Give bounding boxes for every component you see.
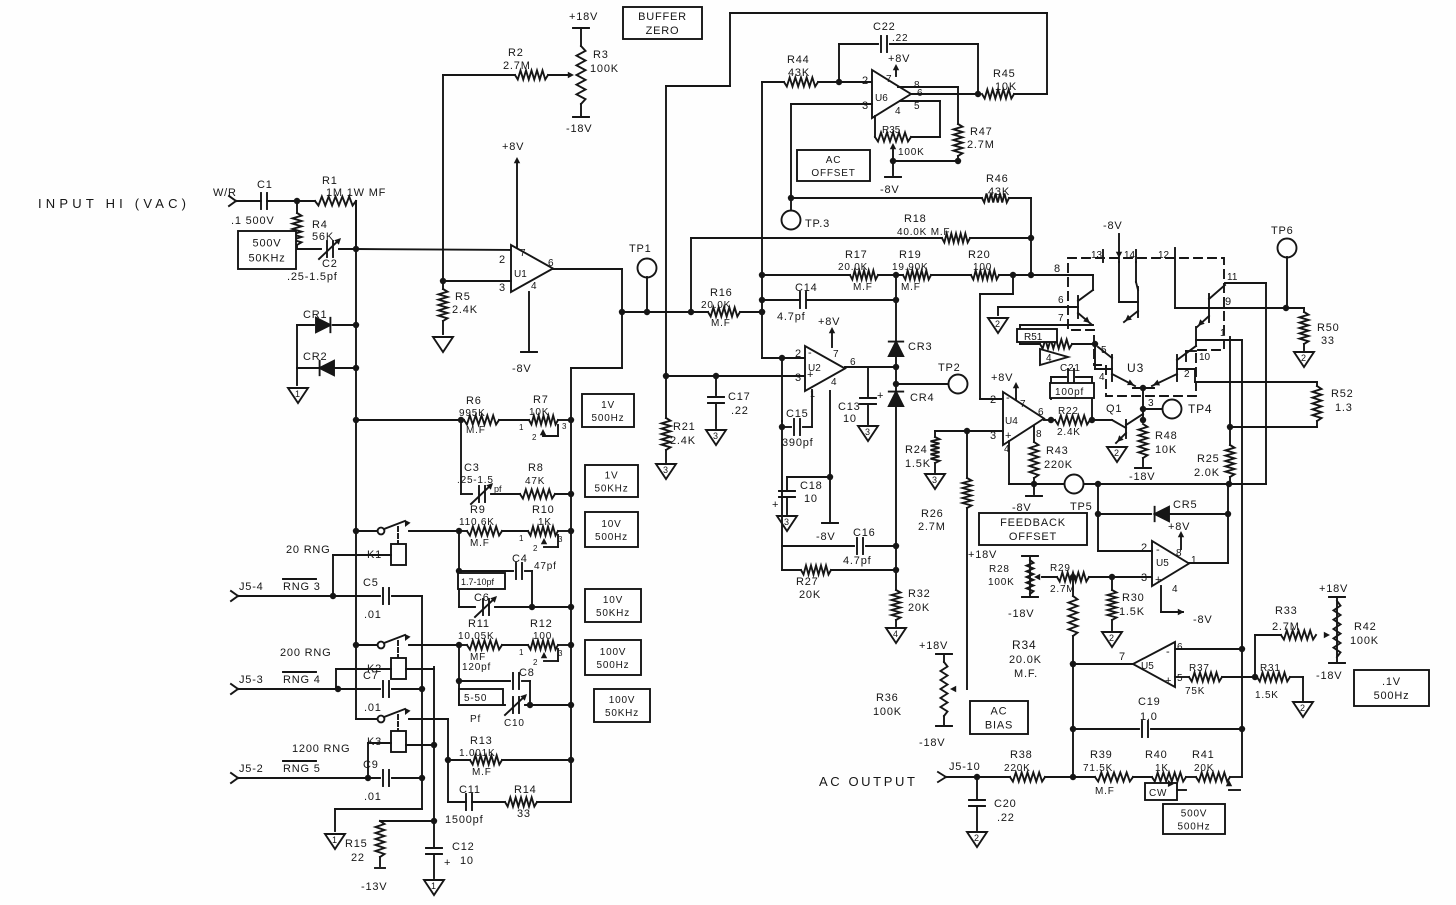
svg-text:1.0: 1.0 [1140,711,1158,723]
svg-text:995K: 995K [459,408,486,419]
svg-text:Pf: Pf [470,714,481,725]
svg-text:U1: U1 [514,269,527,280]
svg-text:R40: R40 [1145,749,1168,761]
svg-text:2.4K: 2.4K [452,304,478,316]
svg-text:U3: U3 [1127,361,1144,375]
svg-text:1: 1 [295,389,300,399]
svg-text:2.4K: 2.4K [670,435,696,447]
svg-text:1.5K: 1.5K [1255,690,1279,701]
svg-text:10K: 10K [1155,444,1177,456]
svg-text:R25: R25 [1197,453,1220,465]
svg-text:10K: 10K [529,407,549,418]
svg-text:CW: CW [1149,788,1167,799]
svg-text:50KHz: 50KHz [605,708,639,719]
svg-text:+: + [1155,574,1161,586]
svg-text:9: 9 [1225,296,1232,308]
svg-text:-: - [1006,392,1010,404]
svg-text:22: 22 [351,852,365,864]
svg-text:+8V: +8V [991,372,1013,384]
svg-text:C11: C11 [459,784,481,796]
svg-text:1.5K: 1.5K [905,458,931,470]
svg-text:CR2: CR2 [303,351,327,363]
svg-text:R32: R32 [908,588,931,600]
svg-text:1V: 1V [605,471,619,482]
svg-text:4: 4 [1099,372,1105,383]
svg-text:C1: C1 [257,179,273,191]
svg-text:13: 13 [1091,250,1103,261]
svg-text:R17: R17 [845,249,868,261]
svg-text:100V: 100V [600,647,627,658]
svg-text:4: 4 [1046,353,1052,364]
svg-text:C12: C12 [452,841,475,853]
svg-text:R2: R2 [508,47,524,59]
svg-text:3: 3 [1148,398,1154,409]
svg-text:C3: C3 [464,462,480,474]
svg-text:2: 2 [1141,542,1148,554]
svg-text:C9: C9 [363,759,379,771]
svg-text:R37: R37 [1189,663,1210,674]
svg-text:R7: R7 [533,394,549,406]
svg-text:R9: R9 [470,504,486,516]
svg-text:2: 2 [1184,369,1190,380]
svg-text:-18V: -18V [1008,608,1034,620]
svg-text:1K: 1K [538,517,552,528]
svg-text:C4: C4 [512,553,528,565]
svg-text:-8V: -8V [1103,220,1123,232]
svg-text:M.F: M.F [472,767,492,778]
svg-text:3: 3 [663,465,668,475]
svg-text:R48: R48 [1155,430,1178,442]
svg-text:3: 3 [784,517,789,527]
svg-text:5: 5 [1177,673,1183,684]
svg-text:4: 4 [895,106,901,117]
svg-text:6: 6 [1058,295,1064,306]
svg-text:K3: K3 [367,736,382,748]
svg-text:120pf: 120pf [462,662,491,673]
svg-text:R11: R11 [468,618,490,630]
svg-text:1: 1 [519,534,524,543]
svg-text:3: 3 [1141,572,1148,584]
svg-text:1: 1 [519,648,524,657]
svg-text:6: 6 [1038,407,1044,418]
svg-text:C6: C6 [474,592,490,604]
svg-text:TP5: TP5 [1070,501,1093,513]
svg-text:R13: R13 [470,735,493,747]
svg-text:+8V: +8V [888,53,910,65]
svg-text:U4: U4 [1005,416,1018,427]
svg-text:100K: 100K [898,147,925,158]
svg-text:47pf: 47pf [534,561,557,572]
svg-text:.1V: .1V [1382,676,1401,688]
svg-text:2.7M: 2.7M [1272,621,1300,633]
svg-text:20.0K: 20.0K [1009,654,1042,666]
svg-text:R19: R19 [899,249,922,261]
svg-text:1: 1 [1220,328,1226,339]
svg-text:R24: R24 [905,444,928,456]
svg-text:R44: R44 [787,54,810,66]
svg-text:M.F.: M.F. [1014,668,1038,680]
svg-text:2.7M: 2.7M [503,60,531,72]
svg-text:.22: .22 [892,33,908,44]
svg-text:R22: R22 [1058,406,1079,417]
svg-text:J5-10: J5-10 [949,761,981,773]
svg-text:.22: .22 [997,812,1015,824]
svg-text:56K: 56K [312,231,334,243]
svg-text:40.0K M.F.: 40.0K M.F. [897,227,953,238]
svg-text:500Hz: 500Hz [597,660,630,671]
svg-text:-: - [808,347,812,359]
svg-text:.01: .01 [364,702,382,714]
svg-text:5-50: 5-50 [464,693,487,704]
svg-text:2.0K: 2.0K [1194,467,1220,479]
svg-text:10: 10 [1199,352,1211,363]
svg-text:R41: R41 [1192,749,1215,761]
svg-text:3: 3 [862,100,869,112]
svg-text:+18V: +18V [569,11,598,23]
svg-text:11: 11 [1227,272,1238,283]
svg-text:14: 14 [1124,250,1136,261]
svg-text:BUFFER: BUFFER [638,11,687,23]
svg-text:500Hz: 500Hz [592,413,625,424]
svg-text:3: 3 [932,475,937,485]
svg-text:75K: 75K [1185,686,1205,697]
svg-text:1V: 1V [601,400,615,411]
svg-text:10: 10 [843,413,857,425]
svg-text:pf: pf [494,484,502,494]
svg-text:4: 4 [831,377,837,388]
svg-text:100: 100 [973,262,992,273]
svg-text:1.7-10pf: 1.7-10pf [461,577,495,587]
svg-text:W/R: W/R [213,187,237,199]
svg-text:C17: C17 [728,391,751,403]
svg-text:AC: AC [826,155,842,166]
svg-text:1.001K: 1.001K [459,748,496,759]
svg-text:4: 4 [531,281,537,292]
svg-text:3: 3 [713,431,718,441]
svg-text:R42: R42 [1354,621,1377,633]
svg-text:500V: 500V [253,238,282,250]
svg-text:43K: 43K [788,67,810,79]
svg-text:.22: .22 [731,405,749,417]
svg-text:50KHz: 50KHz [594,484,628,495]
svg-text:100V: 100V [609,695,636,706]
svg-text:-18V: -18V [1316,670,1342,682]
svg-text:2: 2 [533,658,538,667]
svg-text:7: 7 [886,74,892,85]
svg-text:4.7pf: 4.7pf [843,555,872,567]
svg-text:1: 1 [332,835,337,845]
svg-text:TP6: TP6 [1271,225,1294,237]
svg-text:R4: R4 [312,219,328,231]
svg-text:8: 8 [1036,429,1042,440]
svg-text:50KHz: 50KHz [248,253,285,265]
svg-text:20K: 20K [799,589,821,601]
svg-text:R14: R14 [514,784,537,796]
svg-text:+: + [772,499,779,511]
svg-text:+8V: +8V [1168,521,1190,533]
svg-text:U6: U6 [875,93,888,104]
svg-text:.1 500V: .1 500V [231,215,275,227]
svg-text:7: 7 [1058,313,1064,324]
svg-text:J5-2: J5-2 [239,763,264,775]
svg-text:7: 7 [1119,651,1126,663]
svg-text:U5: U5 [1156,558,1169,569]
svg-text:2: 2 [990,394,997,406]
svg-text:.25-1.5pf: .25-1.5pf [287,271,338,283]
svg-text:+: + [444,857,451,869]
svg-text:R6: R6 [466,395,482,407]
svg-text:ZERO: ZERO [646,25,680,37]
svg-text:8: 8 [1054,263,1061,275]
svg-text:200 RNG: 200 RNG [280,647,331,659]
svg-text:CR4: CR4 [910,392,934,404]
svg-text:110.6K: 110.6K [459,517,495,528]
svg-text:1.3: 1.3 [1335,402,1353,414]
svg-text:R20: R20 [968,249,991,261]
svg-text:RNG 5: RNG 5 [283,763,321,775]
svg-text:R16: R16 [710,287,733,299]
svg-text:TP.3: TP.3 [805,218,830,230]
svg-text:7: 7 [1020,399,1026,410]
svg-text:220K: 220K [1004,763,1031,774]
svg-text:R28: R28 [989,564,1010,575]
svg-text:R26: R26 [921,508,944,520]
svg-text:CR3: CR3 [908,341,932,353]
svg-text:+8V: +8V [502,141,524,153]
svg-text:TP4: TP4 [1188,402,1212,416]
svg-text:M.F: M.F [1095,786,1115,797]
svg-text:7: 7 [833,349,839,360]
svg-text:-8V: -8V [880,184,900,196]
svg-text:-8V: -8V [816,531,836,543]
svg-text:1500pf: 1500pf [445,814,484,826]
svg-text:3: 3 [865,427,870,437]
svg-text:10V: 10V [603,595,623,606]
svg-text:R3: R3 [593,49,609,61]
svg-text:10V: 10V [601,519,621,530]
svg-text:RNG 4: RNG 4 [283,674,321,686]
svg-text:C16: C16 [853,527,876,539]
svg-text:R47: R47 [970,126,993,138]
svg-text:R5: R5 [455,291,471,303]
svg-text:100K: 100K [1350,635,1379,647]
svg-text:2: 2 [1300,703,1305,713]
svg-text:19.90K: 19.90K [892,262,929,273]
svg-text:12: 12 [1158,250,1170,261]
svg-text:+: + [877,390,884,402]
svg-text:C19: C19 [1138,696,1161,708]
svg-text:4: 4 [893,629,898,639]
svg-text:J5-4: J5-4 [239,581,264,593]
svg-text:C22: C22 [873,21,896,33]
svg-text:R52: R52 [1331,388,1354,400]
svg-text:C20: C20 [994,798,1017,810]
svg-text:M.F: M.F [853,282,873,293]
svg-text:3: 3 [499,282,506,294]
svg-text:-8V: -8V [512,363,532,375]
svg-text:C10: C10 [504,718,525,729]
svg-text:1: 1 [431,881,436,891]
svg-text:100pf: 100pf [1055,387,1084,398]
svg-text:+18V: +18V [968,549,997,561]
svg-text:500Hz: 500Hz [1374,690,1410,702]
svg-text:2: 2 [499,254,506,266]
svg-text:8: 8 [1176,548,1182,559]
svg-text:-: - [1156,544,1160,556]
svg-text:R46: R46 [986,173,1009,185]
svg-text:R12: R12 [530,618,553,630]
svg-text:2: 2 [995,319,1000,329]
svg-text:C5: C5 [363,577,379,589]
svg-text:R30: R30 [1122,592,1145,604]
svg-text:1: 1 [1191,555,1197,566]
svg-text:R18: R18 [904,213,927,225]
svg-text:TP1: TP1 [629,243,652,255]
svg-text:500Hz: 500Hz [1178,822,1211,833]
svg-text:-18V: -18V [919,737,945,749]
svg-text:6: 6 [548,258,554,269]
svg-text:+18V: +18V [1319,583,1348,595]
svg-text:220K: 220K [1044,459,1073,471]
svg-text:43K: 43K [988,186,1010,198]
svg-text:OFFSET: OFFSET [1009,531,1057,543]
svg-text:1: 1 [519,423,524,432]
svg-text:R43: R43 [1046,445,1069,457]
svg-text:R31: R31 [1260,663,1281,674]
svg-text:R8: R8 [528,462,544,474]
svg-text:CR5: CR5 [1173,499,1197,511]
svg-text:-18V: -18V [566,123,592,135]
svg-text:.01: .01 [364,609,382,621]
svg-text:C8: C8 [519,667,535,679]
svg-text:J5-3: J5-3 [239,674,264,686]
svg-text:OFFSET: OFFSET [811,168,855,179]
svg-text:+: + [1165,675,1171,687]
svg-text:C21: C21 [1060,363,1081,374]
svg-text:500Hz: 500Hz [595,532,628,543]
svg-text:.25-1.5: .25-1.5 [457,475,494,486]
svg-text:100K: 100K [873,706,902,718]
svg-text:50KHz: 50KHz [596,608,630,619]
svg-text:R21: R21 [673,421,696,433]
svg-text:20.0K: 20.0K [701,300,731,311]
svg-text:AC: AC [991,706,1008,718]
svg-text:RNG 3: RNG 3 [283,581,321,593]
svg-text:C13: C13 [838,401,861,413]
svg-text:C2: C2 [322,258,338,270]
svg-text:+18V: +18V [919,640,948,652]
svg-text:1M 1W MF: 1M 1W MF [326,187,386,199]
svg-text:M.F: M.F [466,425,486,436]
svg-text:C15: C15 [786,408,809,420]
svg-text:2: 2 [1109,633,1114,643]
svg-text:+8V: +8V [818,316,840,328]
svg-text:R50: R50 [1317,322,1340,334]
svg-text:47K: 47K [525,476,545,487]
svg-text:500V: 500V [1181,809,1208,820]
svg-text:AC OUTPUT: AC OUTPUT [819,774,918,789]
svg-text:5: 5 [914,101,920,112]
svg-text:R36: R36 [876,692,899,704]
svg-text:FEEDBACK: FEEDBACK [1000,517,1066,529]
svg-text:M.F: M.F [470,538,490,549]
svg-text:R34: R34 [1012,638,1036,652]
svg-text:C7: C7 [363,670,379,682]
svg-text:-8V: -8V [1193,614,1213,626]
svg-text:100K: 100K [988,577,1015,588]
svg-text:1200 RNG: 1200 RNG [292,743,350,755]
svg-text:100: 100 [533,631,552,642]
svg-text:2: 2 [795,348,802,360]
svg-text:-13V: -13V [361,881,387,893]
svg-text:2.4K: 2.4K [1057,427,1081,438]
svg-text:R51: R51 [1024,332,1043,343]
svg-text:Q1: Q1 [1106,403,1122,415]
svg-text:INPUT HI (VAC): INPUT HI (VAC) [38,196,190,211]
svg-text:R10: R10 [532,504,555,516]
svg-text:2: 2 [533,544,538,553]
svg-text:R35: R35 [882,125,901,136]
svg-text:R1: R1 [322,175,338,187]
svg-text:CR1: CR1 [303,309,327,321]
svg-text:10: 10 [804,493,818,505]
svg-text:4.7pf: 4.7pf [777,311,806,323]
svg-text:1.5K: 1.5K [1119,606,1145,618]
svg-text:+: + [807,369,813,381]
svg-text:-: - [1166,646,1170,658]
svg-text:3: 3 [562,422,567,431]
svg-text:TP2: TP2 [938,362,961,374]
svg-text:C14: C14 [795,282,818,294]
svg-text:33: 33 [1321,335,1335,347]
svg-text:2: 2 [974,833,979,843]
svg-text:R27: R27 [796,576,819,588]
svg-text:7: 7 [520,248,526,259]
svg-text:2: 2 [1301,353,1306,363]
svg-text:-18V: -18V [1129,471,1155,483]
svg-text:.01: .01 [364,791,382,803]
svg-text:M.F: M.F [901,282,921,293]
svg-text:100K: 100K [590,63,619,75]
svg-text:10: 10 [460,855,474,867]
svg-text:20.0K: 20.0K [838,262,868,273]
svg-text:390pf: 390pf [782,437,814,449]
svg-text:71.5K: 71.5K [1083,763,1113,774]
svg-text:2.7M: 2.7M [967,139,995,151]
svg-text:20K: 20K [1194,763,1214,774]
svg-text:C18: C18 [800,480,823,492]
svg-text:33: 33 [517,808,531,820]
svg-text:1K: 1K [1155,763,1169,774]
svg-text:2: 2 [862,75,869,87]
svg-text:2.7M: 2.7M [1050,584,1075,595]
svg-text:R45: R45 [993,68,1016,80]
svg-text:R33: R33 [1275,605,1298,617]
svg-text:10.05K: 10.05K [458,631,495,642]
svg-text:BIAS: BIAS [985,720,1013,732]
svg-text:20 RNG: 20 RNG [286,544,331,556]
svg-text:R39: R39 [1090,749,1113,761]
svg-text:10K: 10K [995,81,1017,93]
svg-text:R29: R29 [1050,563,1071,574]
svg-text:4: 4 [1172,584,1178,595]
svg-text:2: 2 [1114,448,1119,458]
svg-text:3: 3 [795,372,802,384]
svg-text:2: 2 [532,433,537,442]
svg-text:R15: R15 [345,838,368,850]
svg-text:M.F: M.F [711,318,731,329]
svg-text:U5: U5 [1141,661,1154,672]
